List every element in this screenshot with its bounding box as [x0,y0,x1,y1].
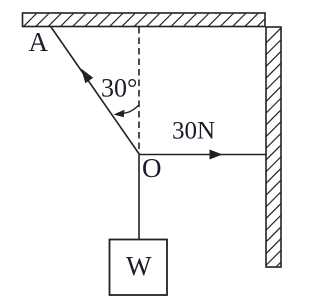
svg-text:W: W [126,251,152,281]
svg-text:A: A [29,27,49,57]
svg-text:O: O [142,153,162,183]
svg-text:30N: 30N [172,118,215,145]
svg-text:30°: 30° [101,74,137,103]
